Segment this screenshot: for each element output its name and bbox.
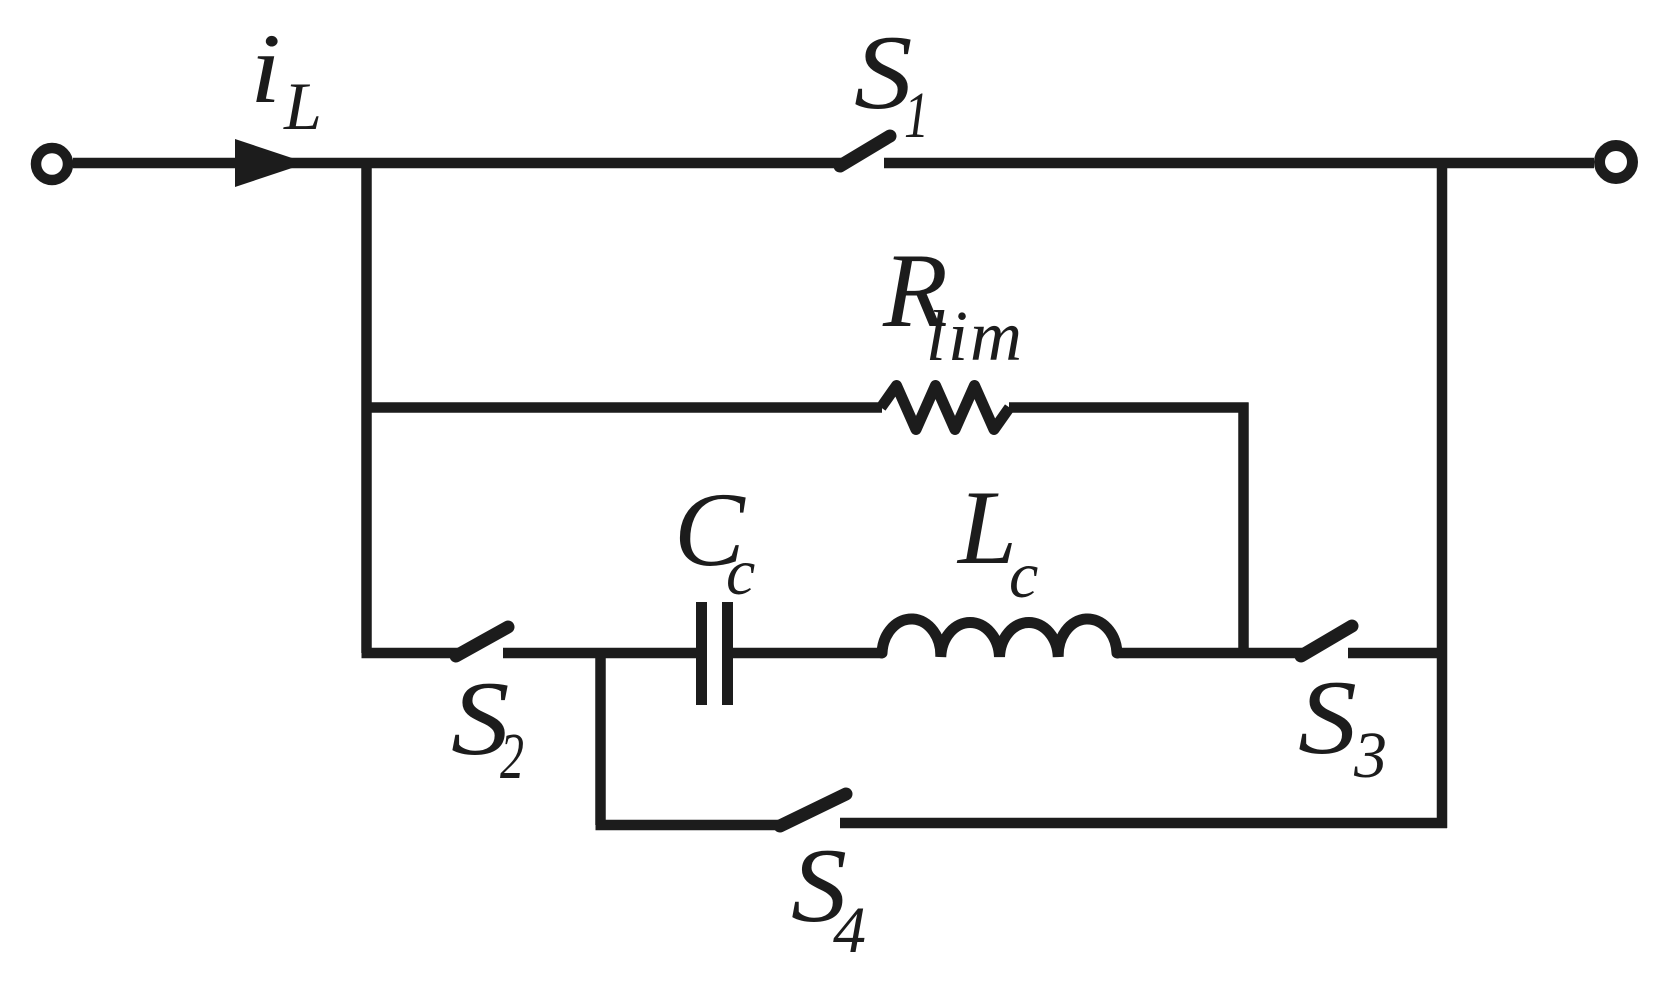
wire Cc to Lc <box>733 648 883 659</box>
inductor Lc humps <box>882 619 1117 657</box>
wire bottom left <box>596 820 784 831</box>
svg-text:c: c <box>1009 539 1038 612</box>
svg-text:L: L <box>283 68 322 144</box>
svg-text:L: L <box>956 469 1017 586</box>
wire middle branch right <box>1348 648 1447 659</box>
wire top right segment <box>884 158 1594 169</box>
switch S1 blade <box>840 136 890 166</box>
svg-text:2: 2 <box>500 720 524 793</box>
wire right vertical <box>1437 158 1448 828</box>
switch S2 blade <box>456 627 508 656</box>
terminal right <box>1600 146 1633 179</box>
terminal left <box>36 148 68 180</box>
wire R branch right vertical <box>1238 403 1249 654</box>
capacitor Cc left plate <box>696 602 707 705</box>
wire middle branch left <box>362 648 459 659</box>
svg-text:S: S <box>1298 659 1357 776</box>
svg-text:3: 3 <box>1353 719 1387 792</box>
wire middle branch S2 to Cc <box>503 648 696 659</box>
svg-text:lim: lim <box>926 296 1024 376</box>
svg-text:i: i <box>250 13 281 124</box>
switch S4 blade <box>780 794 846 826</box>
wire left vertical <box>361 158 372 653</box>
wire S4 vertical <box>595 648 606 825</box>
arrow current direction <box>235 139 307 187</box>
wire R branch left <box>362 402 883 413</box>
switch S3 blade <box>1301 626 1352 656</box>
svg-text:1: 1 <box>904 79 929 152</box>
wire Lc to S3 <box>1117 648 1303 659</box>
capacitor Cc right plate <box>722 602 733 705</box>
wire bottom right <box>840 818 1447 829</box>
resistor Rlim zigzag <box>881 386 1010 430</box>
wire R branch right <box>1009 402 1249 413</box>
svg-text:4: 4 <box>833 894 866 967</box>
wire top left segment <box>73 158 842 169</box>
svg-text:c: c <box>726 536 755 609</box>
